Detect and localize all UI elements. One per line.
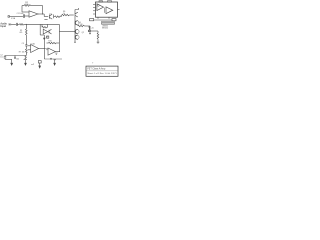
svg-text:R10: R10: [48, 41, 51, 43]
svg-text:10u: 10u: [0, 57, 3, 59]
svg-text:47k: 47k: [19, 32, 22, 34]
svg-text:10k: 10k: [16, 58, 19, 60]
svg-text:IC1: IC1: [100, 1, 103, 3]
svg-text:C1 100n: C1 100n: [17, 13, 24, 15]
svg-text:C3: C3: [22, 43, 24, 45]
svg-text:+15: +15: [91, 27, 94, 29]
svg-text:Q2: Q2: [82, 32, 84, 34]
svg-text:NE5532: NE5532: [102, 27, 108, 29]
svg-text:100k: 100k: [25, 4, 29, 6]
svg-text:Input: Input: [0, 25, 6, 28]
svg-text:R8: R8: [80, 24, 82, 26]
svg-text:R7 10k: R7 10k: [19, 51, 25, 53]
svg-text:Sheet: 1 of 1 Rev: 1.0 Id: 2: Sheet: 1 of 1 Rev: 1.0 Id: 2/XY1: [87, 72, 117, 75]
svg-text:Q3: Q3: [46, 36, 48, 38]
svg-text:FET Class A Amp: FET Class A Amp: [87, 68, 106, 71]
svg-text:1k: 1k: [63, 13, 65, 15]
svg-text:Q1: Q1: [49, 14, 51, 16]
